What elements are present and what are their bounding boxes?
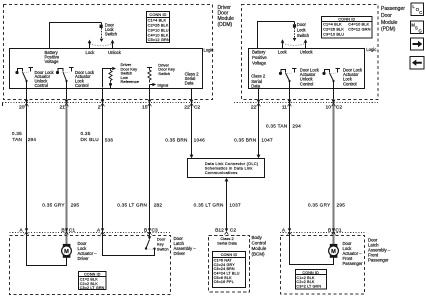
wire label 0.35 BRN 1047 [234,138,273,143]
svg-text:294: 294 [292,123,301,128]
svg-text:B: B [144,228,147,234]
connector symbol pin22 PDM [257,100,261,107]
svg-text:Serial Data: Serial Data [217,241,238,246]
svg-text:Logic: Logic [204,48,214,53]
svg-text:15: 15 [142,105,148,111]
svg-text:CONN ID: CONN ID [149,12,166,17]
svg-text:C3=2 LT GRN: C3=2 LT GRN [296,284,321,288]
svg-text:CONN ID: CONN ID [84,273,101,277]
svg-text:M: M [64,249,69,255]
door latch assembly front passenger dashed box [281,236,365,295]
svg-text:DK BLU: DK BLU [81,137,100,142]
svg-text:C3=10 BLU: C3=10 BLU [323,31,344,36]
svg-text:0.35 TAN: 0.35 TAN [266,123,287,128]
motor M driver door lock actuator [62,241,98,261]
svg-text:Data: Data [251,83,261,88]
svg-text:Control: Control [75,83,89,88]
wire motor loop driver [27,233,67,266]
DLC note box [188,159,265,178]
driver U1 unlock control DDM [15,68,54,89]
DDM name label [218,5,235,28]
passenger latch connector line [280,232,365,234]
svg-text:22: 22 [184,105,190,111]
pin B C1 driver latch [61,228,75,234]
svg-text:TAN: TAN [12,137,22,142]
svg-text:Passenger: Passenger [368,258,389,263]
class 2 serial data label DDM [185,71,200,85]
svg-text:294: 294 [28,137,37,142]
pin 22 C2 [184,105,200,111]
svg-text:20: 20 [19,105,25,111]
connector symbol A driver latch [25,228,29,234]
svg-text:C2: C2 [194,105,201,111]
wire label 0.35 GRY 295 passenger [308,202,345,207]
svg-text:1047: 1047 [261,138,273,143]
wire label 0.35 GRY 295 driver [42,202,79,207]
connector symbol B C1 driver latch [65,228,69,234]
motor M passenger door lock actuator [329,241,364,266]
svg-text:21: 21 [60,105,66,111]
driver latch connector line [10,232,171,234]
wire label 0.35 LT GRN 1037 [194,202,241,207]
wire label 0.35 LT GRN 282 [117,202,162,207]
svg-text:295: 295 [337,202,346,207]
svg-text:282: 282 [154,202,163,207]
svg-text:C1: C1 [69,228,76,234]
wire pin20 to A driver latch [26,81,28,233]
svg-text:B12: B12 [215,228,224,234]
door key switch driver [103,233,169,256]
resistor low reference DDM [103,62,140,88]
wire battery positive riser DDM [50,23,102,49]
door latch assembly driver label [174,236,197,256]
BCM CONN ID table [213,252,246,288]
svg-text:M: M [331,249,336,255]
door latch assembly driver dashed box [10,236,171,295]
svg-text:Logic: Logic [366,47,376,52]
svg-text:10: 10 [326,105,332,111]
svg-text:Voltage: Voltage [45,59,60,64]
svg-text:Reference: Reference [121,79,140,84]
lock contact DDM [86,40,96,55]
svg-text:0.35 LT GRN: 0.35 LT GRN [117,202,147,207]
wire label 0.35 DK BLU 536 [81,131,114,143]
PDM name label [381,6,405,32]
connector symbol pin15 [148,100,152,107]
svg-text:536: 536 [105,137,114,142]
battery positive voltage label DDM [45,50,60,64]
svg-text:0.35 GRY: 0.35 GRY [42,202,65,207]
toolbar button LOC [411,3,424,16]
svg-text:C3=2 LT GRN: C3=2 LT GRN [80,286,105,290]
svg-text:C2: C2 [230,228,237,234]
wire label 0.35 BRN 1046 [165,138,205,143]
lock contact PDM [278,39,288,54]
svg-text:Door: Door [297,22,307,27]
svg-text:CONN ID: CONN ID [302,271,319,275]
svg-text:0.35 LT GRN: 0.35 LT GRN [194,202,224,207]
svg-text:Switch: Switch [297,33,310,38]
svg-text:Voltage: Voltage [252,60,267,65]
svg-text:C1: C1 [335,228,342,234]
resistor key switch signal DDM [147,62,175,88]
svg-text:C5=12 GRN: C5=12 GRN [148,37,170,42]
wire motor loop passenger [290,233,334,265]
BCM name label [252,235,267,256]
svg-text:C6=16 PPL: C6=16 PPL [214,280,234,284]
svg-text:Control: Control [252,240,267,245]
svg-text:Module: Module [381,20,398,26]
svg-text:Lock: Lock [86,50,96,55]
svg-text:Passenger: Passenger [381,6,405,12]
svg-text:0.35 BRN: 0.35 BRN [165,138,187,143]
svg-text:295: 295 [71,202,80,207]
connector symbol B12 [225,228,229,234]
svg-text:Communications: Communications [205,170,238,175]
svg-text:CONN ID: CONN ID [221,253,238,257]
svg-text:1046: 1046 [194,138,206,143]
svg-text:Control: Control [300,81,314,86]
wire pin10 to B C1 passenger latch gray [333,81,335,244]
svg-text:Unlock: Unlock [300,50,314,55]
svg-text:Module: Module [252,246,267,251]
svg-text:Signal: Signal [157,83,168,88]
svg-text:Driver: Driver [78,256,90,261]
connector symbol A passenger latch [288,228,292,234]
driver door module DDM dashed boundary [4,5,213,100]
svg-text:(PDM): (PDM) [381,27,396,33]
svg-text:Positive: Positive [252,55,267,60]
svg-text:22: 22 [251,105,257,111]
connector symbol pin21 [65,100,69,107]
pin B C3 key switch [144,228,158,234]
unlock contact DDM [108,40,122,55]
driver U2 lock control DDM [56,68,95,89]
wire label 0.35 TAN 294 passenger [266,123,301,128]
svg-text:G: G [419,28,422,33]
connector line C2 PDM [234,102,378,104]
svg-text:Battery: Battery [252,50,266,55]
svg-text:1037: 1037 [229,202,241,207]
wire BCM class2 up arrow to DLC [225,178,229,231]
svg-text:(DDM): (DDM) [218,22,233,28]
connector symbol pin11 PDM [288,100,292,107]
svg-text:0.35 GRY: 0.35 GRY [308,202,331,207]
svg-text:Control: Control [343,81,357,86]
unlock contact PDM [300,39,314,54]
pin 10 C2 PDM [326,105,343,111]
wire pin15 to B C3 key switch [149,88,151,233]
PDM CONN ID table [322,16,373,38]
connector symbol B C1 passenger latch [332,228,336,234]
wire pin2 to A key switch [102,88,104,233]
wire pin22 class2 to DLC [190,88,194,158]
wire pin11 to A passenger latch [289,81,291,233]
svg-text:Data: Data [185,80,195,85]
svg-text:0.35 BRN: 0.35 BRN [234,138,256,143]
door lock switch DDM [90,23,118,46]
connector line C2 DDM [3,103,201,107]
driver U4 lock control PDM [322,68,363,87]
svg-text:(BCM): (BCM) [252,251,265,256]
svg-text:0.35: 0.35 [12,131,22,136]
pin B C1 passenger latch [328,228,342,234]
connector symbol pin22 [190,100,194,107]
DDM CONN ID table [147,12,170,43]
svg-text:Switch: Switch [157,246,169,251]
svg-text:B: B [328,228,331,234]
class 2 serial data label PDM [251,74,266,89]
DDM logic box [10,48,214,89]
wire pin22 class2 PDM to DLC [257,88,261,158]
toolbar button back arrow [410,57,424,70]
wire battery positive riser PDM [258,22,295,49]
toolbar button ASG [411,21,424,34]
connector symbol B C3 key switch [148,228,152,234]
passenger door module PDM dashed boundary [242,5,379,100]
svg-text:C: C [419,10,422,15]
svg-text:Body: Body [252,235,263,240]
svg-text:2: 2 [98,105,101,111]
connector symbol pin2 [101,100,105,107]
door lock switch PDM [283,22,310,46]
svg-text:B: B [61,228,64,234]
svg-text:Switch: Switch [158,71,170,76]
driver U3 unlock control PDM [279,68,320,87]
body control module BCM dashed box [209,235,250,292]
svg-text:Passenger: Passenger [343,261,364,266]
toolbar button next arrow [411,38,424,50]
connector symbol pin20 [25,100,29,107]
svg-text:Lock: Lock [278,50,288,55]
svg-text:Door: Door [381,13,392,19]
svg-text:Lock: Lock [297,28,307,33]
svg-text:C2: C2 [336,105,343,111]
svg-text:Driver: Driver [174,251,186,256]
svg-text:Unlock: Unlock [108,50,122,55]
svg-text:Control: Control [35,83,49,88]
battery positive voltage label PDM [252,50,267,66]
wire pin21 to B C1 driver latch gray [66,81,68,244]
svg-text:11: 11 [282,105,287,111]
PDM logic box [249,47,377,89]
wire label 0.35 TAN 294 [12,131,37,142]
driver latch CONN ID table [79,272,107,291]
door latch assembly front passenger label [368,238,391,263]
connector symbol pin10 PDM [332,100,336,107]
passenger latch CONN ID table [296,270,327,290]
node B12 C2 [215,228,236,234]
connector symbol A key switch [101,228,105,234]
svg-text:C5=12 GRN: C5=12 GRN [348,26,370,31]
svg-text:Switch: Switch [105,32,118,37]
svg-text:C3: C3 [152,228,159,234]
svg-text:0.35: 0.35 [81,131,91,136]
